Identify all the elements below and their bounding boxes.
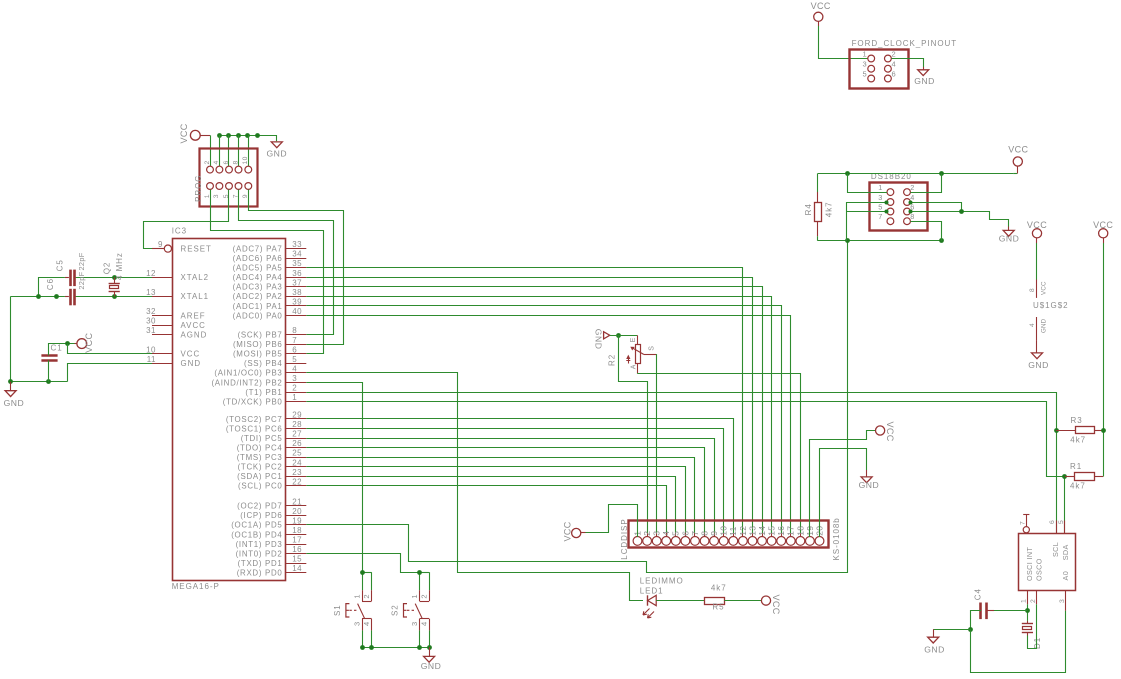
connector PROG box: [200, 149, 258, 207]
connector FORD_CLOCK_PINOUT box: [850, 50, 909, 89]
wire PB0 to R1/SDA: [306, 402, 1065, 477]
ground GND symbol (LCD pin20): [859, 470, 880, 490]
svg-text:6: 6: [680, 531, 690, 536]
svg-text:GND: GND: [1041, 318, 1048, 333]
resistor R1 value 4k7: [1070, 482, 1086, 491]
svg-text:34: 34: [292, 250, 302, 259]
wire DS18B20 pin2 to VCC: [910, 173, 941, 192]
svg-text:SDA: SDA: [1061, 544, 1070, 560]
junction dot C4 gnd node: [968, 627, 973, 632]
switch S2: [404, 572, 430, 647]
capacitor C4 label: [974, 588, 983, 600]
power VCC supply symbol (R5): [761, 595, 780, 615]
junction dots ground rail: [8, 379, 51, 384]
wire PC2 to LCD pin 6: [306, 467, 685, 538]
svg-text:(OC2) PD7: (OC2) PD7: [237, 502, 282, 511]
part U$1G$2 VCC pin: [1029, 280, 1048, 298]
wire SCK PROG pin7 to PB7: [239, 190, 334, 335]
svg-text:2: 2: [642, 531, 652, 536]
svg-text:1: 1: [410, 594, 419, 598]
svg-text:C5: C5: [55, 259, 64, 271]
part U$1G$2 GND pin: [1029, 317, 1048, 340]
svg-text:KS-0108b: KS-0108b: [832, 517, 841, 560]
svg-text:R5: R5: [712, 602, 724, 611]
svg-text:1: 1: [863, 50, 867, 59]
resistor R3 value 4k7: [1070, 436, 1086, 445]
capacitor C6 label: [46, 278, 55, 290]
capacitor C4: [981, 603, 995, 620]
wire DS18B20 pin4 pin6 to GND: [910, 202, 1008, 227]
svg-text:(ADC7) PA7: (ADC7) PA7: [233, 244, 283, 253]
wire DS18B20 pin8 to data: [910, 222, 941, 241]
junction node Q2 bottom: [112, 294, 117, 299]
power VCC supply symbol (LCD pin1): [562, 521, 585, 541]
svg-text:18: 18: [292, 526, 302, 535]
svg-text:40: 40: [292, 307, 302, 316]
led LED1 name LEDIMMO: [640, 577, 684, 586]
svg-text:8: 8: [1029, 288, 1036, 292]
svg-text:5: 5: [292, 355, 297, 364]
svg-text:INT: INT: [1025, 547, 1034, 560]
svg-text:33: 33: [292, 240, 302, 249]
wire PC3 to LCD pin 7: [306, 458, 694, 538]
svg-text:13: 13: [747, 526, 757, 536]
svg-text:(TOSC1) PC6: (TOSC1) PC6: [226, 424, 283, 433]
svg-text:12: 12: [738, 526, 748, 536]
svg-text:(ADC6) PA6: (ADC6) PA6: [233, 254, 283, 263]
svg-text:3: 3: [292, 374, 297, 383]
pin numbers FORD 1-6: [863, 50, 896, 79]
svg-text:22: 22: [292, 477, 302, 486]
svg-text:(OC1B) PD4: (OC1B) PD4: [231, 530, 282, 539]
svg-text:C1: C1: [51, 344, 63, 353]
svg-text:XTAL2: XTAL2: [181, 273, 210, 282]
svg-text:(SCK) PB7: (SCK) PB7: [238, 331, 283, 340]
junction dots VCC rail: [845, 171, 944, 176]
svg-text:10: 10: [146, 345, 156, 354]
connector PROG bottom row pin circles: [207, 183, 252, 190]
capacitor C1 label: [51, 344, 63, 353]
junction dot SCL node: [1054, 428, 1059, 433]
crystal D1 label: [1033, 637, 1042, 649]
svg-text:Q2: Q2: [102, 262, 111, 275]
wire PROG pin 4 to rail: [219, 135, 221, 166]
svg-text:8: 8: [292, 326, 297, 335]
ic RTC INT pin: [1019, 515, 1029, 533]
capacitor values 22pF 22pF: [77, 252, 86, 289]
ground GND symbol (R2): [594, 329, 610, 350]
svg-text:1: 1: [292, 393, 297, 402]
svg-text:GND: GND: [421, 661, 442, 671]
junction node Q2 top: [112, 275, 117, 280]
wire VCC pin net: [68, 344, 153, 354]
connector DS18B20 box: [870, 183, 928, 231]
svg-text:OSCO: OSCO: [1035, 558, 1044, 581]
svg-text:10: 10: [242, 156, 249, 164]
svg-text:1: 1: [1020, 599, 1027, 603]
svg-text:(INT1) PD3: (INT1) PD3: [236, 540, 283, 549]
svg-text:4k7: 4k7: [825, 201, 834, 217]
wire VCC to LCD pin 1: [586, 505, 638, 538]
ground GND symbol (U$1G$2): [1028, 340, 1049, 369]
ground GND symbol (DS18B20): [999, 227, 1020, 244]
pin numbers LCD 1-20: [632, 526, 824, 536]
svg-text:22pF: 22pF: [77, 252, 86, 270]
wire PD2 to S2: [306, 554, 419, 573]
wire FORD pin 2 to GND: [891, 59, 923, 68]
svg-text:1: 1: [878, 183, 882, 192]
ic IC3 left pin numbers: [146, 240, 163, 364]
svg-text:6: 6: [892, 70, 896, 79]
svg-text:(SCL) PC0: (SCL) PC0: [238, 482, 282, 491]
ic IC3 right pin names: [211, 244, 282, 577]
svg-text:E: E: [630, 337, 637, 342]
svg-text:LEDIMMO: LEDIMMO: [640, 577, 684, 586]
wire LED1 anode to R5: [656, 600, 704, 602]
svg-text:GND: GND: [924, 645, 945, 655]
svg-text:3: 3: [213, 194, 220, 198]
trimmer R2 label: [608, 354, 617, 366]
wire data rail DS18B20: [818, 240, 942, 242]
svg-text:(ADC2) PA2: (ADC2) PA2: [233, 292, 283, 301]
svg-text:4 MHz: 4 MHz: [115, 252, 124, 280]
svg-text:26: 26: [292, 439, 302, 448]
svg-text:VCC: VCC: [885, 422, 895, 442]
svg-text:GND: GND: [181, 359, 202, 368]
svg-text:S1: S1: [333, 604, 342, 616]
pin numbers S2: [410, 594, 429, 626]
svg-text:23: 23: [292, 468, 302, 477]
svg-text:(ADC1) PA1: (ADC1) PA1: [233, 302, 283, 311]
svg-text:GND: GND: [266, 148, 287, 158]
svg-text:(MISO) PB6: (MISO) PB6: [233, 340, 283, 349]
svg-text:GND: GND: [999, 234, 1020, 244]
svg-text:(ADC0) PA0: (ADC0) PA0: [233, 311, 283, 320]
svg-text:SCL: SCL: [1051, 542, 1060, 557]
svg-text:2: 2: [1030, 599, 1037, 603]
svg-text:7: 7: [878, 212, 882, 221]
svg-text:2: 2: [910, 183, 914, 192]
wire PROG pin 6 to rail: [228, 135, 230, 166]
ic IC3 RESET inverting bubble: [164, 245, 171, 252]
part U$1G$2 label: [1033, 301, 1069, 310]
svg-text:VCC: VCC: [1027, 220, 1047, 230]
wire C4 to OSCI: [994, 610, 1027, 612]
svg-text:2: 2: [362, 594, 371, 598]
wire R2 wiper S to LCD pin 3: [655, 355, 657, 538]
connector LCDDISP box: [629, 521, 829, 548]
svg-text:19: 19: [292, 516, 302, 525]
svg-text:LED1: LED1: [640, 586, 664, 595]
svg-text:5: 5: [878, 203, 882, 212]
svg-text:VCC: VCC: [1093, 220, 1113, 230]
svg-text:VCC: VCC: [1008, 145, 1028, 155]
wire PC4 to LCD pin 8: [306, 448, 704, 538]
svg-text:(OC1A) PD5: (OC1A) PD5: [231, 521, 282, 530]
svg-text:5: 5: [1058, 520, 1065, 524]
svg-text:8: 8: [910, 212, 914, 221]
resistor R4 label: [804, 203, 813, 215]
svg-text:9: 9: [709, 531, 719, 536]
svg-text:11: 11: [728, 526, 738, 535]
wire crystal to OSCO: [1028, 604, 1037, 648]
junction dot R3 right: [1101, 428, 1106, 433]
junction dots on GND rail: [217, 133, 260, 138]
ic IC3 value MEGA16-P: [172, 582, 220, 591]
svg-text:7: 7: [292, 336, 297, 345]
ic RTC SCL SDA pin leads: [1049, 520, 1065, 534]
crystal Q2: [109, 277, 120, 296]
svg-text:(TOSC2) PC7: (TOSC2) PC7: [226, 415, 283, 424]
wire R2 A to LCD pin 18: [638, 374, 801, 538]
svg-text:C4: C4: [974, 588, 983, 600]
ic IC3 name label: [172, 227, 187, 236]
svg-text:(ADC3) PA3: (ADC3) PA3: [233, 283, 283, 292]
power VCC supply symbol (FORD): [811, 1, 831, 26]
svg-text:R4: R4: [804, 203, 813, 215]
svg-text:VCC: VCC: [811, 1, 831, 11]
svg-text:39: 39: [292, 298, 302, 307]
svg-text:4: 4: [1029, 323, 1036, 327]
svg-text:(TCK) PC2: (TCK) PC2: [238, 463, 283, 472]
wire PB3 to LED1 cathode: [306, 373, 643, 601]
wire GND to R2 E: [610, 335, 637, 337]
svg-text:16: 16: [776, 526, 786, 536]
svg-text:6: 6: [292, 345, 297, 354]
svg-text:21: 21: [292, 497, 302, 506]
crystal Q2 label: [102, 262, 111, 275]
svg-text:14: 14: [757, 526, 767, 536]
ic IC3 left pin names: [181, 244, 212, 368]
wire PC6 to LCD pin 10: [306, 429, 723, 538]
junction dots DS18B20 pins 3 5: [885, 201, 889, 214]
svg-text:R3: R3: [1071, 416, 1083, 425]
svg-text:22pF: 22pF: [77, 271, 86, 289]
svg-text:A0: A0: [1061, 571, 1070, 581]
wire DS18B20 pin1 to VCC: [848, 173, 888, 192]
svg-text:36: 36: [292, 269, 302, 278]
svg-text:1: 1: [204, 194, 211, 198]
svg-text:(MOSI) PB5: (MOSI) PB5: [233, 350, 283, 359]
svg-text:4k7: 4k7: [1070, 436, 1086, 445]
ic RTC pin names top: [1025, 542, 1070, 560]
svg-text:18: 18: [795, 526, 805, 536]
power VCC supply symbol (IC3): [75, 332, 95, 352]
wire PA2 to LCD pin 15: [306, 297, 771, 538]
svg-text:RESET: RESET: [181, 244, 212, 253]
led LED1 label: [640, 586, 664, 595]
svg-text:20: 20: [292, 507, 302, 516]
svg-text:1: 1: [352, 594, 361, 598]
svg-text:15: 15: [767, 526, 777, 536]
pin numbers PROG bottom row 1 3 5 7 9: [204, 194, 249, 198]
junction dots switch ground: [360, 645, 432, 650]
crystal Q2 value 4 MHz: [115, 252, 124, 280]
svg-text:16: 16: [292, 545, 302, 554]
wire SCL down to RTC: [1056, 431, 1058, 534]
svg-text:3: 3: [878, 193, 882, 202]
ground GND symbol (left): [4, 382, 25, 408]
resistor R3: [1056, 427, 1103, 434]
svg-text:FORD_CLOCK_PINOUT: FORD_CLOCK_PINOUT: [852, 39, 958, 48]
svg-text:13: 13: [146, 288, 156, 297]
svg-text:4: 4: [420, 622, 429, 626]
svg-text:MEGA16-P: MEGA16-P: [172, 582, 220, 591]
wire PC1 to LCD pin 5: [306, 477, 675, 538]
wire PROG pin 10 to rail: [248, 135, 250, 166]
svg-text:2: 2: [204, 160, 211, 164]
wire GND node rail: [933, 629, 970, 631]
ground GND symbol (PROG): [266, 142, 287, 158]
capacitor C6: [65, 289, 75, 306]
wire MISO PROG pin9 to PB6: [249, 190, 344, 345]
wire PA5 to LCD pin 12: [306, 268, 742, 538]
power VCC supply symbol (PROG): [179, 123, 210, 143]
wire PA3 to LCD pin 14: [306, 287, 762, 538]
wire PA1 to LCD pin 16: [306, 306, 781, 538]
wire PC7 to LCD pin 11: [306, 419, 733, 538]
svg-text:29: 29: [292, 411, 302, 420]
svg-text:VCC: VCC: [771, 595, 781, 615]
resistor R1 label: [1070, 462, 1082, 471]
svg-text:S2: S2: [391, 604, 400, 616]
connector LCD pin leads: [638, 533, 820, 537]
switch S1: [346, 572, 372, 647]
wire PC5 to LCD pin 9: [306, 439, 714, 538]
svg-text:VCC: VCC: [562, 521, 572, 541]
svg-text:8: 8: [232, 160, 239, 164]
svg-text:3: 3: [863, 60, 867, 69]
wire LCD pin 19 to VCC: [810, 431, 876, 538]
svg-text:9: 9: [158, 240, 163, 249]
capacitor C5: [65, 270, 75, 287]
resistor R5 value 4k7: [711, 584, 727, 593]
svg-text:37: 37: [292, 278, 302, 287]
ic IC3 right pin stubs: [285, 249, 306, 573]
svg-text:4: 4: [661, 531, 671, 536]
junction dot S1 top: [360, 570, 365, 575]
svg-text:AVCC: AVCC: [181, 321, 206, 330]
svg-text:AREF: AREF: [181, 311, 206, 320]
pin numbers S1: [352, 594, 371, 626]
wire MOSI PROG pin1 to PB5: [211, 190, 324, 354]
svg-text:(AIND/INT2) PB2: (AIND/INT2) PB2: [211, 378, 282, 387]
svg-text:(T1) PB1: (T1) PB1: [245, 388, 282, 397]
connector DS18B20 label: [871, 172, 912, 181]
svg-text:(ICP) PD6: (ICP) PD6: [240, 511, 282, 520]
wire GND rail above PROG: [219, 136, 276, 142]
connector PROG top row pin circles: [207, 166, 252, 173]
svg-text:31: 31: [146, 326, 156, 335]
junction dot VCC node: [65, 341, 70, 346]
wire VCC rail to pullups: [1103, 243, 1105, 477]
trimmer potentiometer R2: [626, 335, 656, 373]
svg-text:17: 17: [292, 536, 302, 545]
wire R2 gnd to LCD pin 2: [619, 335, 648, 537]
svg-text:6: 6: [223, 160, 230, 164]
connector DS18B20 pin circles: [887, 189, 910, 225]
svg-text:D1: D1: [1033, 637, 1042, 649]
svg-text:4k7: 4k7: [1070, 482, 1086, 491]
svg-text:4: 4: [892, 60, 896, 69]
svg-text:15: 15: [292, 555, 302, 564]
svg-text:4k7: 4k7: [711, 584, 727, 593]
svg-text:(TDO) PC4: (TDO) PC4: [237, 444, 283, 453]
wire LCD pin 20 to GND: [820, 449, 867, 538]
ic RTC pin names bottom: [1025, 558, 1070, 581]
svg-text:VCC: VCC: [1041, 281, 1048, 295]
svg-text:(TDI) PC5: (TDI) PC5: [241, 434, 283, 443]
wire A0 to GND: [971, 611, 1066, 673]
svg-text:27: 27: [292, 430, 302, 439]
svg-text:(TXD) PD1: (TXD) PD1: [238, 559, 283, 568]
power VCC supply symbol (U$1G$2): [1027, 220, 1047, 243]
svg-text:8: 8: [700, 531, 710, 536]
svg-text:AGND: AGND: [181, 331, 208, 340]
wire left ground vertical: [10, 296, 12, 381]
svg-text:35: 35: [292, 259, 302, 268]
resistor R5 label: [712, 602, 724, 611]
svg-text:GND: GND: [859, 480, 880, 490]
junction dot R2 gnd node: [616, 333, 621, 338]
trimmer R2 terminal labels E S A: [630, 337, 655, 369]
junction dots data rail: [845, 238, 944, 243]
ic RTC bottom pin leads: [1020, 591, 1066, 611]
svg-text:IC3: IC3: [172, 227, 187, 236]
svg-text:3: 3: [410, 622, 419, 626]
svg-text:(AIN1/OC0) PB3: (AIN1/OC0) PB3: [214, 369, 282, 378]
wire switch ground rail: [362, 647, 429, 649]
svg-text:14: 14: [292, 564, 302, 573]
svg-text:2: 2: [892, 50, 896, 59]
wire PD5 to DS18B20 data: [306, 241, 847, 573]
wire SDA down to RTC: [1064, 477, 1066, 534]
svg-text:(SDA) PC1: (SDA) PC1: [237, 472, 282, 481]
wire RTC OSCI node: [1027, 604, 1029, 621]
switch S1 label: [333, 604, 342, 616]
ic IC3 left pin stubs: [152, 249, 172, 364]
svg-text:GND: GND: [4, 398, 25, 408]
power VCC supply symbol (DS18B20): [1008, 145, 1028, 174]
wire GND pin net: [68, 364, 153, 382]
svg-text:32: 32: [146, 307, 156, 316]
svg-text:(RXD) PD0: (RXD) PD0: [237, 569, 283, 578]
capacitor C1: [41, 356, 57, 361]
wire VCC rail DS18B20: [818, 173, 1013, 175]
svg-text:GND: GND: [914, 76, 935, 86]
svg-text:U$1G$2: U$1G$2: [1033, 301, 1069, 310]
svg-text:C6: C6: [46, 278, 55, 290]
connector PROG label: [194, 175, 203, 202]
wire C5 ground side: [39, 278, 65, 297]
wire VCC to FORD pin 1: [819, 26, 868, 59]
svg-text:VCC: VCC: [84, 332, 94, 352]
capacitor C5 label: [55, 259, 64, 271]
wire RESET PROG pin5 to RESET pin: [144, 190, 229, 249]
svg-text:5: 5: [671, 531, 681, 536]
svg-text:3: 3: [652, 531, 662, 536]
pin numbers DS18B20 1-8: [878, 183, 914, 221]
svg-text:3: 3: [352, 622, 361, 626]
connector FORD pin circles: [868, 55, 892, 82]
svg-text:2: 2: [292, 384, 297, 393]
connector KS-0108b label: [832, 517, 841, 560]
svg-text:4: 4: [213, 160, 220, 164]
power VCC supply symbol (LCD pin19): [876, 422, 895, 442]
svg-text:7: 7: [1019, 521, 1026, 525]
wire XTAL1 net: [76, 296, 152, 298]
svg-text:(INT0) PD2: (INT0) PD2: [236, 549, 283, 558]
